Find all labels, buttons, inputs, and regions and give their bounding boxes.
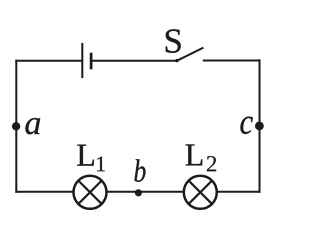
switch pivot dot bbox=[175, 59, 178, 62]
label L2 "L" bbox=[186, 144, 203, 165]
battery short plate (-) bbox=[90, 53, 93, 70]
lamp L2 bbox=[184, 176, 217, 209]
lamp L1 bbox=[74, 176, 107, 209]
label L2 subscript 2 bbox=[207, 156, 216, 171]
label b bbox=[134, 159, 145, 182]
label c bbox=[240, 117, 252, 134]
wire switch contact to top-right corner bbox=[203, 60, 261, 62]
wire bottom bbox=[15, 191, 260, 193]
wire battery to switch pivot bbox=[91, 60, 176, 62]
node a dot bbox=[12, 122, 20, 130]
label L1 subscript 1 bbox=[97, 157, 105, 172]
node c dot bbox=[255, 122, 264, 131]
label S bbox=[166, 29, 181, 53]
label L1 "L" bbox=[77, 145, 94, 166]
battery long plate (+) bbox=[81, 43, 83, 78]
wire right vertical bbox=[259, 59, 261, 193]
wire top-left segment bbox=[15, 60, 82, 62]
node b dot bbox=[135, 189, 142, 196]
label a bbox=[25, 118, 40, 134]
wire left vertical bbox=[15, 60, 17, 193]
switch blade (open) bbox=[177, 48, 204, 61]
